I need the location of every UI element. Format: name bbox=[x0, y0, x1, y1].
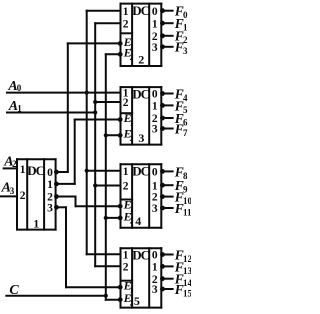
svg-text:3: 3 bbox=[47, 202, 53, 214]
svg-text:4: 4 bbox=[135, 214, 141, 228]
svg-text:2: 2 bbox=[20, 190, 26, 202]
svg-text:2: 2 bbox=[138, 52, 144, 66]
svg-text:2: 2 bbox=[12, 159, 17, 169]
svg-text:DC: DC bbox=[132, 247, 149, 262]
svg-text:3: 3 bbox=[10, 186, 15, 196]
svg-text:14: 14 bbox=[183, 278, 191, 288]
svg-text:3: 3 bbox=[152, 284, 158, 296]
svg-text:0: 0 bbox=[47, 167, 53, 179]
svg-text:1: 1 bbox=[20, 164, 26, 176]
svg-text:1: 1 bbox=[123, 249, 129, 261]
svg-text:13: 13 bbox=[183, 266, 191, 276]
svg-text:1: 1 bbox=[123, 6, 129, 18]
svg-text:12: 12 bbox=[183, 254, 191, 264]
svg-text:10: 10 bbox=[183, 196, 191, 206]
svg-text:7: 7 bbox=[183, 128, 188, 138]
svg-text:2: 2 bbox=[130, 217, 134, 226]
svg-text:11: 11 bbox=[183, 207, 191, 217]
svg-text:2: 2 bbox=[123, 97, 129, 109]
svg-text:DC: DC bbox=[132, 86, 149, 101]
svg-text:15: 15 bbox=[183, 288, 191, 298]
svg-text:1: 1 bbox=[47, 179, 53, 191]
svg-text:1: 1 bbox=[123, 166, 129, 178]
svg-text:1: 1 bbox=[152, 262, 158, 274]
svg-text:2: 2 bbox=[123, 181, 129, 193]
svg-text:1: 1 bbox=[152, 180, 158, 192]
svg-text:1: 1 bbox=[152, 101, 158, 113]
svg-text:2: 2 bbox=[123, 18, 129, 30]
svg-text:0: 0 bbox=[17, 83, 22, 93]
svg-text:3: 3 bbox=[183, 46, 188, 56]
svg-text:5: 5 bbox=[134, 294, 140, 308]
svg-text:2: 2 bbox=[152, 192, 158, 204]
svg-text:3: 3 bbox=[152, 42, 158, 54]
svg-text:C: C bbox=[9, 283, 19, 298]
svg-text:0: 0 bbox=[152, 6, 158, 18]
svg-text:1: 1 bbox=[33, 216, 39, 230]
svg-text:DC: DC bbox=[132, 163, 149, 178]
svg-text:2: 2 bbox=[123, 261, 129, 273]
svg-text:DC: DC bbox=[132, 3, 149, 18]
svg-text:0: 0 bbox=[152, 250, 158, 262]
svg-text:0: 0 bbox=[152, 89, 158, 101]
svg-text:3: 3 bbox=[152, 203, 158, 215]
svg-text:2: 2 bbox=[130, 134, 134, 143]
svg-text:0: 0 bbox=[152, 167, 158, 179]
svg-text:1: 1 bbox=[152, 18, 158, 30]
svg-text:1: 1 bbox=[17, 103, 22, 113]
svg-text:2: 2 bbox=[130, 53, 134, 62]
svg-text:3: 3 bbox=[152, 124, 158, 136]
svg-text:3: 3 bbox=[138, 131, 144, 145]
svg-text:DC: DC bbox=[27, 163, 44, 178]
